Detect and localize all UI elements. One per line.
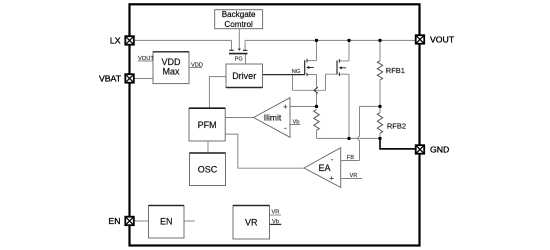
svg-text:VR: VR <box>245 218 258 228</box>
svg-text:RFB2: RFB2 <box>387 121 406 130</box>
svg-text:EN: EN <box>160 216 173 226</box>
svg-text:Max: Max <box>162 67 180 77</box>
svg-text:OSC: OSC <box>198 165 218 175</box>
svg-text:LX: LX <box>110 36 121 46</box>
svg-text:Vb: Vb <box>293 120 300 126</box>
svg-text:+: + <box>283 102 288 111</box>
svg-text:VOUT: VOUT <box>430 35 455 45</box>
svg-text:NG: NG <box>292 69 301 75</box>
svg-text:Vb: Vb <box>272 219 279 225</box>
svg-text:RFB1: RFB1 <box>386 66 405 75</box>
svg-text:Driver: Driver <box>232 71 256 81</box>
svg-text:VR: VR <box>272 209 280 215</box>
svg-text:VDD: VDD <box>191 62 203 68</box>
svg-text:VBAT: VBAT <box>99 74 122 84</box>
svg-text:PG: PG <box>235 56 243 62</box>
svg-text:EN: EN <box>108 216 120 226</box>
svg-text:GND: GND <box>430 145 449 155</box>
svg-text:PFM: PFM <box>198 120 217 130</box>
svg-text:VOUT: VOUT <box>138 56 154 62</box>
svg-text:+: + <box>330 174 335 183</box>
svg-text:Backgate: Backgate <box>222 10 256 19</box>
svg-text:VR: VR <box>350 173 358 179</box>
svg-text:FB: FB <box>347 155 354 161</box>
svg-text:Comtrol: Comtrol <box>224 20 253 29</box>
svg-text:EA: EA <box>318 163 330 173</box>
svg-text:VDD: VDD <box>161 57 181 67</box>
svg-text:Ilimit: Ilimit <box>264 112 282 122</box>
